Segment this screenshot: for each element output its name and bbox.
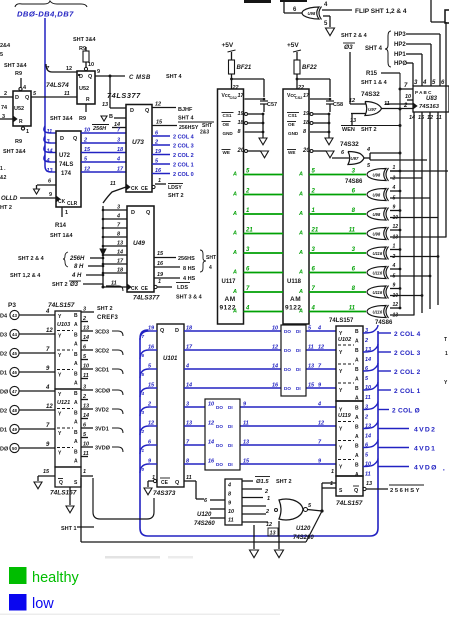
svg-text:GND: GND	[288, 131, 299, 136]
svg-text:CK: CK	[131, 186, 139, 192]
svg-text:3VD2: 3VD2	[95, 408, 109, 414]
svg-text:U116: U116	[373, 290, 383, 295]
svg-text:19: 19	[303, 111, 310, 117]
svg-text:4VD1: 4VD1	[414, 446, 436, 453]
svg-text:D: D	[15, 95, 19, 101]
svg-text:4: 4	[45, 385, 50, 391]
svg-text:SHT 3&4: SHT 3&4	[73, 37, 97, 43]
svg-text:16: 16	[272, 383, 279, 389]
svg-text:2 COL 3: 2 COL 3	[394, 350, 421, 357]
svg-text:2: 2	[265, 509, 269, 515]
svg-text:1: 1	[83, 469, 86, 475]
svg-text:1: 1	[267, 496, 270, 502]
svg-text:CREF3: CREF3	[97, 315, 119, 321]
svg-text:4VD2: 4VD2	[414, 427, 436, 434]
svg-text:DØ: DØ	[0, 447, 9, 453]
svg-text:B: B	[74, 372, 78, 378]
svg-text:17: 17	[238, 93, 245, 99]
svg-text:1: 1	[330, 481, 333, 487]
svg-text:B: B	[74, 450, 78, 456]
svg-text:4: 4	[366, 147, 370, 153]
svg-text:B: B	[74, 430, 78, 436]
svg-text:SHT 1,2 & 4: SHT 1,2 & 4	[10, 273, 41, 279]
svg-text:2 COL 1: 2 COL 1	[173, 163, 194, 169]
svg-text:CLR: CLR	[67, 201, 78, 207]
svg-text:DBØ-DB4,DB7: DBØ-DB4,DB7	[17, 10, 74, 19]
svg-text:U52: U52	[79, 86, 89, 92]
svg-text:4: 4	[422, 80, 427, 86]
svg-text:Q: Q	[160, 328, 165, 334]
svg-text:4: 4	[116, 214, 120, 220]
svg-text:2: 2	[364, 338, 368, 344]
svg-text:9: 9	[393, 283, 396, 289]
svg-text:3: 3	[83, 385, 86, 391]
svg-text:11: 11	[349, 306, 356, 312]
svg-text:1: 1	[393, 165, 396, 171]
svg-text:5: 5	[142, 372, 145, 377]
svg-text:R14: R14	[55, 223, 67, 229]
svg-text:18: 18	[117, 147, 124, 153]
svg-text:healthy: healthy	[32, 570, 80, 586]
svg-text:U120: U120	[197, 512, 212, 518]
svg-text:A: A	[232, 211, 237, 217]
svg-text:DI: DI	[228, 462, 233, 467]
svg-text:17: 17	[117, 259, 124, 265]
svg-text:2: 2	[264, 489, 268, 495]
svg-text:SHT 4: SHT 4	[178, 116, 195, 122]
svg-text:14: 14	[208, 440, 214, 446]
svg-text:74LS377: 74LS377	[133, 295, 160, 302]
svg-text:A: A	[298, 309, 303, 315]
svg-text:C57: C57	[267, 102, 277, 108]
svg-text:19: 19	[148, 326, 155, 332]
svg-text:Ø3: Ø3	[344, 44, 353, 51]
svg-text:A: A	[232, 309, 237, 315]
svg-text:13: 13	[117, 241, 123, 247]
svg-text:A: A	[355, 339, 359, 345]
svg-text:12: 12	[84, 167, 90, 173]
svg-text:74S260: 74S260	[194, 521, 215, 527]
svg-text:D: D	[130, 108, 134, 114]
svg-text:1: 1	[26, 129, 29, 135]
svg-text:CK: CK	[131, 286, 139, 292]
svg-text:12: 12	[46, 404, 53, 410]
svg-text:15: 15	[157, 251, 164, 257]
svg-text:43: 43	[12, 313, 17, 318]
svg-text:DO: DO	[216, 443, 223, 448]
svg-text:2: 2	[83, 138, 87, 144]
svg-text:U101: U101	[163, 356, 178, 362]
svg-text:74LS157: 74LS157	[329, 318, 354, 324]
svg-text:4: 4	[392, 185, 396, 191]
svg-text:D1: D1	[0, 371, 7, 377]
svg-text:B: B	[355, 444, 359, 450]
svg-text:10: 10	[84, 128, 90, 134]
svg-text:R9: R9	[79, 46, 86, 52]
svg-text:U102: U102	[338, 337, 351, 343]
svg-text:R9: R9	[79, 116, 86, 122]
svg-text:HP2: HP2	[394, 42, 406, 48]
svg-text:A: A	[355, 358, 359, 364]
svg-text:WEN: WEN	[342, 127, 355, 133]
svg-text:+5V: +5V	[222, 42, 234, 49]
svg-text:BJHF: BJHF	[178, 107, 193, 113]
svg-text:46: 46	[12, 370, 17, 375]
svg-text:11: 11	[365, 472, 371, 478]
svg-text:47: 47	[12, 389, 17, 394]
svg-text:R9: R9	[15, 139, 22, 145]
svg-text:10: 10	[272, 326, 278, 332]
svg-text:74LS: 74LS	[59, 162, 73, 168]
svg-text:15: 15	[156, 120, 163, 126]
svg-text:B: B	[355, 367, 359, 373]
svg-text:DO: DO	[284, 367, 291, 372]
svg-text:11: 11	[47, 129, 53, 135]
svg-text:10: 10	[208, 402, 214, 408]
svg-text:256H: 256H	[92, 126, 107, 132]
svg-text:BF21: BF21	[237, 65, 252, 71]
svg-text:CS1: CS1	[223, 113, 232, 118]
svg-text:B: B	[355, 463, 359, 469]
svg-text:12: 12	[393, 224, 399, 230]
svg-text:A: A	[74, 439, 78, 445]
svg-text:4VDØ: 4VDØ	[414, 465, 438, 472]
svg-text:49: 49	[12, 427, 17, 432]
svg-text:21: 21	[311, 228, 319, 234]
svg-text:4: 4	[116, 157, 120, 163]
svg-text:48: 48	[12, 408, 17, 413]
svg-text:1: 1	[445, 351, 448, 357]
svg-text:10: 10	[393, 293, 399, 299]
svg-text:2 COL 2: 2 COL 2	[173, 153, 194, 159]
svg-text:4 HS: 4 HS	[183, 276, 196, 282]
svg-text:D2: D2	[0, 352, 7, 358]
svg-text:SHT 2 & 4: SHT 2 & 4	[18, 256, 45, 262]
svg-text:WE: WE	[288, 150, 295, 155]
svg-text:2: 2	[392, 254, 396, 260]
svg-text:8 HS: 8 HS	[183, 266, 196, 272]
svg-text:R15: R15	[366, 71, 378, 77]
svg-text:13: 13	[308, 364, 314, 370]
svg-text:14: 14	[272, 364, 278, 370]
svg-text:B: B	[355, 425, 359, 431]
svg-text:50: 50	[12, 446, 17, 451]
svg-text:+5V: +5V	[287, 42, 299, 49]
svg-text:11: 11	[243, 421, 249, 427]
svg-text:P3: P3	[8, 302, 16, 309]
svg-text:15: 15	[43, 469, 50, 475]
svg-text:45: 45	[12, 351, 17, 356]
svg-text:U73: U73	[132, 139, 144, 146]
svg-text:256HS: 256HS	[178, 256, 195, 262]
svg-text:12: 12	[66, 66, 72, 72]
svg-text:HT 2: HT 2	[0, 205, 12, 211]
svg-text:14: 14	[365, 357, 371, 363]
svg-text:U83: U83	[426, 96, 438, 102]
svg-text:D1: D1	[0, 428, 7, 434]
svg-text:19: 19	[157, 272, 164, 278]
svg-text:2: 2	[364, 415, 368, 421]
svg-text:D: D	[60, 136, 64, 142]
svg-text:P A B C: P A B C	[415, 90, 432, 95]
svg-text:U98: U98	[308, 11, 316, 16]
svg-text:4: 4	[209, 265, 212, 271]
svg-text:A: A	[74, 381, 78, 387]
svg-text:AM: AM	[225, 296, 236, 303]
svg-text:DO: DO	[216, 462, 223, 467]
svg-text:A: A	[74, 361, 78, 367]
svg-text:SHT 3 & 4: SHT 3 & 4	[176, 295, 203, 301]
svg-text:14: 14	[365, 434, 371, 440]
svg-text:B: B	[355, 406, 359, 412]
svg-text:10: 10	[88, 62, 94, 68]
svg-text:DO: DO	[216, 405, 223, 410]
svg-text:AM: AM	[290, 296, 301, 303]
svg-text:16: 16	[155, 168, 162, 174]
svg-text:DI: DI	[228, 405, 233, 410]
svg-text:LDSY: LDSY	[168, 185, 182, 191]
svg-text:Q: Q	[25, 95, 30, 101]
svg-text:44: 44	[12, 332, 17, 337]
svg-text:U121: U121	[57, 400, 70, 406]
svg-text:DI: DI	[228, 443, 233, 448]
svg-text:3: 3	[117, 205, 120, 211]
svg-text:11: 11	[83, 373, 89, 379]
svg-text:A: A	[232, 250, 237, 256]
svg-text:B: B	[355, 386, 359, 392]
svg-text:5: 5	[393, 274, 396, 280]
svg-text:CE: CE	[141, 186, 149, 192]
svg-text:5: 5	[0, 52, 3, 58]
svg-text:A: A	[232, 231, 237, 237]
svg-text:2: 2	[392, 176, 396, 182]
svg-text:U103: U103	[57, 322, 70, 328]
svg-text:5: 5	[393, 196, 396, 202]
svg-text:1 .: 1 .	[0, 166, 6, 172]
svg-text:22: 22	[232, 85, 239, 91]
svg-text:2: 2	[154, 140, 158, 146]
svg-text:4: 4	[141, 391, 145, 396]
svg-text:low: low	[32, 596, 54, 612]
svg-text:A: A	[74, 342, 78, 348]
svg-text:256H: 256H	[69, 256, 85, 262]
svg-text:A: A	[298, 270, 303, 276]
svg-text:11: 11	[308, 345, 314, 351]
svg-text:2: 2	[82, 394, 86, 400]
svg-text:U49: U49	[133, 240, 145, 247]
svg-text:DI: DI	[296, 348, 301, 353]
svg-text:SHT: SHT	[202, 123, 212, 129]
svg-text:21: 21	[245, 228, 253, 234]
svg-text:2&3: 2&3	[200, 130, 209, 136]
svg-text:4: 4	[392, 263, 396, 269]
svg-text:74S32: 74S32	[361, 91, 380, 98]
svg-text:U120: U120	[296, 526, 311, 532]
svg-text:DI: DI	[296, 367, 301, 372]
svg-text:FLIP SHT 1,2 & 4: FLIP SHT 1,2 & 4	[355, 8, 407, 15]
svg-text:16: 16	[208, 459, 215, 465]
svg-text:BF22: BF22	[302, 65, 317, 71]
svg-text:CS2: CS2	[230, 96, 237, 100]
svg-text:9: 9	[49, 192, 52, 198]
svg-text:3CDØ: 3CDØ	[95, 389, 111, 395]
svg-text:11: 11	[186, 475, 192, 481]
svg-text:LDS: LDS	[177, 285, 188, 291]
svg-text:18: 18	[117, 268, 124, 274]
svg-text:GND: GND	[223, 131, 234, 136]
svg-text:17: 17	[303, 93, 310, 99]
svg-text:12: 12	[155, 102, 161, 108]
svg-text:SHT 2 & 4: SHT 2 & 4	[341, 33, 368, 39]
svg-text:U116: U116	[373, 271, 383, 276]
svg-text:20: 20	[237, 148, 245, 154]
svg-text:2: 2	[311, 189, 316, 195]
svg-text:A: A	[74, 459, 78, 465]
svg-text:18: 18	[238, 120, 245, 126]
svg-text:SHT 2: SHT 2	[168, 193, 184, 199]
svg-text:13: 13	[243, 440, 249, 446]
svg-text:2 COL 4: 2 COL 4	[173, 135, 195, 141]
svg-text:13: 13	[393, 235, 399, 241]
svg-text:Q: Q	[175, 480, 180, 486]
svg-text:CE: CE	[161, 480, 169, 486]
svg-text:D: D	[131, 210, 135, 216]
svg-text:SHT 4: SHT 4	[365, 46, 383, 52]
svg-text:12: 12	[393, 302, 399, 308]
svg-text:74S373: 74S373	[153, 490, 176, 497]
svg-text:D4: D4	[0, 314, 8, 320]
svg-text:DO: DO	[284, 386, 291, 391]
svg-text:U97: U97	[351, 156, 359, 161]
svg-text:&2: &2	[0, 175, 7, 181]
svg-text:B: B	[74, 333, 78, 339]
svg-text:8 H: 8 H	[74, 264, 84, 270]
svg-text:10: 10	[393, 215, 399, 221]
svg-text:SHT 3&4: SHT 3&4	[50, 116, 74, 122]
svg-text:2 COL 0: 2 COL 0	[173, 172, 194, 178]
svg-text:U117: U117	[222, 279, 237, 285]
svg-text:13: 13	[102, 102, 108, 108]
svg-text:4: 4	[317, 402, 321, 408]
svg-text:74LS157: 74LS157	[48, 302, 75, 309]
svg-text:R: R	[19, 119, 23, 125]
svg-text:U98: U98	[373, 193, 381, 198]
svg-text:17: 17	[117, 167, 124, 173]
svg-text:Q: Q	[146, 210, 151, 216]
svg-text:2: 2	[4, 91, 7, 97]
svg-text:14: 14	[117, 250, 123, 256]
svg-text:A: A	[355, 377, 359, 383]
svg-text:2 COL 1: 2 COL 1	[394, 388, 421, 395]
svg-text:18: 18	[303, 120, 310, 126]
svg-text:1: 1	[65, 210, 68, 216]
svg-text:1: 1	[142, 448, 145, 453]
svg-text:U98: U98	[373, 212, 381, 217]
svg-text:16: 16	[148, 345, 155, 351]
svg-text:11: 11	[349, 228, 356, 234]
svg-text:14: 14	[83, 413, 89, 419]
svg-text:SHT 3&4: SHT 3&4	[4, 63, 28, 69]
svg-text:U116: U116	[373, 310, 383, 315]
svg-text:1: 1	[158, 279, 161, 285]
svg-text:74S86: 74S86	[345, 179, 363, 185]
svg-text:DO: DO	[216, 424, 223, 429]
svg-text:11: 11	[64, 91, 70, 97]
svg-text:3CD3: 3CD3	[95, 330, 109, 336]
svg-text:CS2: CS2	[295, 96, 302, 100]
svg-text:A: A	[355, 434, 359, 440]
svg-text:D: D	[175, 328, 179, 334]
svg-text:SHT: SHT	[206, 255, 216, 261]
svg-text:2: 2	[141, 429, 145, 434]
svg-text:3CD1: 3CD1	[95, 368, 109, 374]
svg-text:A: A	[232, 289, 237, 295]
svg-text:A: A	[232, 192, 237, 198]
svg-text:Ø1.5: Ø1.5	[256, 479, 269, 485]
svg-text:A: A	[298, 250, 303, 256]
svg-text:22: 22	[297, 85, 304, 91]
svg-text:13: 13	[350, 118, 356, 124]
svg-text:13: 13	[366, 481, 372, 487]
svg-text:13: 13	[393, 313, 399, 319]
svg-text:4: 4	[227, 483, 231, 489]
svg-text:1: 1	[158, 178, 161, 184]
svg-text:12: 12	[148, 421, 154, 427]
svg-text:U52: U52	[14, 106, 24, 112]
svg-text:U72: U72	[59, 153, 71, 159]
svg-text:9: 9	[97, 69, 100, 75]
svg-text:Q: Q	[354, 488, 359, 494]
svg-text:DI: DI	[296, 386, 301, 391]
svg-text:3: 3	[83, 307, 86, 313]
svg-text:A: A	[74, 400, 78, 406]
svg-text:U118: U118	[287, 279, 302, 285]
svg-text:15: 15	[148, 383, 155, 389]
svg-text:13: 13	[47, 168, 53, 174]
svg-text:12: 12	[349, 98, 355, 104]
svg-text:19: 19	[238, 111, 245, 117]
svg-text:D3: D3	[0, 333, 7, 339]
svg-text:12: 12	[318, 421, 324, 427]
svg-text:Q: Q	[59, 480, 63, 486]
svg-text:Q: Q	[88, 74, 93, 80]
svg-text:U97: U97	[368, 107, 377, 112]
svg-text:DØ: DØ	[0, 390, 9, 396]
svg-text:A: A	[355, 396, 359, 402]
svg-text:2 COL 2: 2 COL 2	[394, 369, 421, 376]
svg-text:D2: D2	[0, 409, 7, 415]
svg-text:20: 20	[302, 148, 310, 154]
svg-text:B: B	[74, 391, 78, 397]
svg-text:7: 7	[142, 334, 145, 339]
svg-text:174: 174	[61, 171, 72, 177]
svg-text:0: 0	[142, 467, 145, 472]
svg-text:A: A	[298, 172, 303, 178]
svg-text:A: A	[355, 472, 359, 478]
svg-text:A: A	[232, 270, 237, 276]
svg-text:OE: OE	[223, 122, 230, 127]
svg-text:SHT 1&4: SHT 1&4	[50, 233, 74, 239]
svg-text:SHT 1 & 4: SHT 1 & 4	[361, 80, 388, 86]
svg-text:2: 2	[147, 402, 151, 408]
svg-text:10: 10	[405, 94, 411, 100]
svg-text:74LS157: 74LS157	[50, 490, 77, 497]
svg-text:1: 1	[393, 244, 396, 250]
svg-text:U98: U98	[373, 232, 381, 237]
svg-text:B: B	[74, 352, 78, 358]
svg-text:A: A	[298, 192, 303, 198]
svg-text:2 COL Ø: 2 COL Ø	[392, 408, 420, 415]
